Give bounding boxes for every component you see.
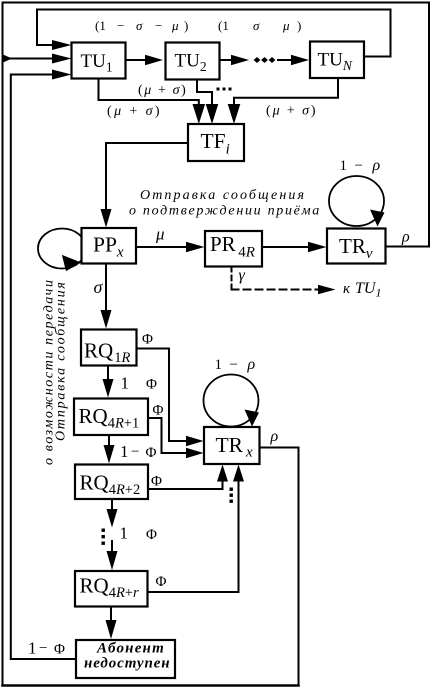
arrowhead PP_x self loop over box edge (62, 255, 81, 271)
svg-text:σ: σ (253, 18, 260, 33)
svg-text:(μ + σ): (μ + σ) (266, 104, 317, 119)
arrowhead TR_x self loop (245, 410, 260, 427)
arrowhead into TU1 bottom input (52, 70, 72, 80)
arrowhead gamma dashed to k TU1 (318, 285, 336, 294)
wire RQ_4R+1 down to RQ_4R+2 (108, 435, 110, 447)
dots between TU2 and TU_N bottom lines (217, 88, 220, 91)
svg-text:Φ: Φ (156, 574, 167, 590)
svg-text:−: − (117, 18, 124, 33)
arrowhead PR to TR_v (308, 242, 327, 252)
wire RQ_4R+1 phi out to TR_x arrow2 (148, 418, 188, 453)
arrowhead PP_x to RQ_1R (101, 310, 112, 329)
arrowhead into TR_x left 1 (186, 436, 204, 446)
state box abonent nedostupen (76, 640, 175, 678)
svg-text:−: − (39, 641, 47, 657)
svg-text:ρ: ρ (401, 229, 410, 246)
svg-text:(μ + σ): (μ + σ) (138, 83, 187, 98)
svg-text:о подтверждении приёма: о подтверждении приёма (129, 204, 321, 219)
svg-text:(1: (1 (218, 18, 229, 33)
svg-text:о возможности передачи: о возможности передачи (42, 278, 57, 465)
svg-text:1: 1 (215, 357, 223, 373)
svg-text:1: 1 (120, 524, 129, 543)
svg-text:Абонент: Абонент (96, 641, 165, 657)
arrowhead chain dots to RQ_4R+r (107, 551, 118, 570)
svg-text:σ: σ (136, 18, 143, 33)
arrowhead into TU1 middle input (52, 54, 72, 64)
wire PR to TR_v (262, 246, 310, 248)
svg-text:Φ: Φ (151, 474, 162, 490)
svg-text:−: − (155, 18, 162, 33)
chain dot 1 (254, 57, 261, 63)
arrowhead TU2 to dots (231, 55, 249, 65)
wire outer top feedback line (3, 2, 430, 4)
svg-text:1: 1 (28, 639, 37, 658)
svg-text:1: 1 (340, 158, 348, 174)
state box TU_N (310, 42, 364, 79)
svg-text:1: 1 (121, 374, 130, 393)
state box TF (188, 124, 244, 161)
arrowhead PP_x self loop (62, 255, 81, 271)
self-loop TR_x (204, 375, 259, 427)
svg-text:Φ: Φ (153, 403, 164, 419)
state box TR_x (204, 427, 260, 464)
arrowhead RQ_1R to RQ_4R+1 (103, 379, 114, 398)
wire TF to PP_x (106, 143, 188, 212)
state box RQ_4R+2 (75, 465, 148, 500)
wire TU1 bottom to TF arrow1 (99, 79, 199, 108)
arrowhead dots to TU_N (291, 55, 309, 65)
wire bottom feedback line (3, 684, 299, 687)
wire into TU1 arrow2 from left frame (3, 58, 55, 60)
chain dot 2 (261, 57, 268, 63)
wire dots down to RQ_4R+r (111, 541, 113, 552)
svg-text:γ: γ (239, 267, 246, 284)
wire RQ_4R+2 phi out to TR_x bottom arrow1 (148, 480, 223, 489)
svg-text:к: к (343, 281, 351, 297)
svg-text:(1: (1 (95, 18, 106, 33)
wire TU1 to TU2 (126, 59, 147, 61)
arrowhead PP_x to PR (186, 242, 205, 252)
chain vertical dots (102, 529, 105, 532)
wire RQ_4R+r phi out to TR_x bottom arrow2 (148, 480, 239, 592)
wire RQ_4R+2 down to dots (111, 499, 113, 511)
arrowhead TU1 to TU2 (145, 55, 163, 65)
state box RQ_4R+r (75, 571, 148, 607)
state box RQ_1R (81, 330, 137, 366)
state box TU2 (166, 43, 220, 80)
arrowhead RQ_4R+2 to chain dots (107, 509, 118, 528)
wire outer left vertical (2, 3, 4, 686)
state box TR_v (327, 229, 386, 264)
svg-text:Φ: Φ (146, 527, 157, 543)
arrowhead TR_v self loop (370, 210, 385, 227)
dots below TR_x (230, 488, 233, 491)
svg-text:Φ: Φ (146, 445, 157, 461)
wire dots to TU_N (278, 59, 292, 61)
wire RQ_1R down to RQ_4R+1 (107, 366, 109, 382)
arrowhead RQ_4R+r to abonent (106, 620, 117, 639)
arrowhead RQ_4R+1 to RQ_4R+2 (104, 445, 115, 464)
state box TU1 (72, 43, 126, 79)
wire PP_x to RQ_1R sigma (105, 264, 107, 313)
state box RQ_4R+1 (74, 399, 148, 436)
svg-text:σ: σ (94, 277, 104, 297)
svg-text:): ) (297, 18, 301, 33)
wire gamma dashed horizontal to k TU1 (232, 289, 320, 291)
junction arrow at left frame into TU1 line (3, 55, 12, 63)
arrowhead TF input 1 (193, 104, 206, 124)
wire RQ_1R phi out to TR_x arrow1 (137, 349, 189, 442)
svg-text:μ: μ (171, 18, 179, 33)
wire PP_x to PR mu (136, 246, 188, 248)
svg-text:μ: μ (282, 18, 290, 33)
svg-text:Φ: Φ (54, 642, 65, 658)
svg-text:(μ + σ): (μ + σ) (107, 104, 162, 119)
svg-text:): ) (184, 18, 188, 33)
wire TU_N bottom to TF arrow3 (234, 78, 338, 107)
wire 1-phi return from abonent box (11, 75, 76, 660)
wire gamma dashed from PR bottom (231, 267, 233, 290)
arrowhead into TR_x bottom 1 (217, 465, 228, 482)
svg-text:ρ: ρ (270, 428, 279, 445)
wire TU_N right output to inner loop (364, 56, 391, 58)
chain dot 3 (269, 57, 276, 63)
wire TR_x rho output right then down (260, 448, 299, 686)
arrowhead into TU1 top input (52, 40, 72, 50)
arrowhead TF to PP_x (101, 209, 112, 228)
state box PP_x (82, 228, 137, 264)
wire TU2 to dots (220, 59, 234, 61)
self-loop PP_x (38, 229, 86, 269)
wire inner loop top (37, 10, 391, 57)
svg-text:1: 1 (120, 442, 129, 461)
svg-text:−: − (131, 444, 139, 460)
svg-text:Φ: Φ (142, 332, 153, 348)
wire RQ_4R+r down to abonent box (110, 607, 112, 623)
wire TR_v rho output to right frame (386, 246, 430, 248)
arrowhead TF input 2 (206, 104, 219, 124)
svg-text:ρ: ρ (247, 356, 256, 373)
svg-text:−: − (230, 357, 238, 373)
wire TU2 bottom to TF arrow2 (197, 80, 212, 108)
state box PR_4R (205, 231, 262, 267)
svg-text:μ: μ (155, 225, 165, 244)
svg-text:Отправка сообщения: Отправка сообщения (140, 188, 306, 203)
svg-text:Φ: Φ (146, 377, 157, 393)
svg-text:ρ: ρ (372, 157, 381, 174)
arrowhead TF input 3 (228, 104, 241, 124)
svg-text:−: − (355, 158, 363, 174)
arrowhead into TR_x bottom 2 (233, 465, 244, 482)
wire outer right vertical (428, 3, 430, 247)
self-loop TR_v (329, 176, 384, 226)
arrowhead into TR_x left 2 (186, 448, 204, 458)
svg-text:недоступен: недоступен (84, 656, 171, 672)
